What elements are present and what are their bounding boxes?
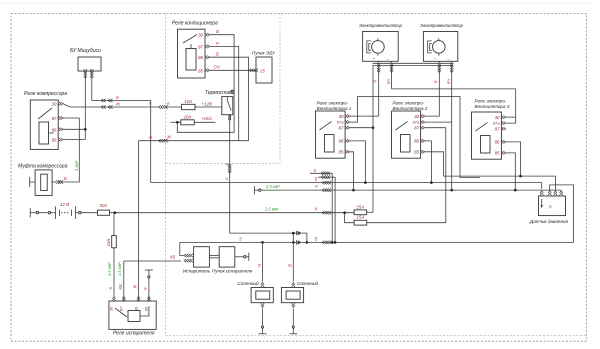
ECU box U1 — [70, 48, 101, 71]
wire evaporator relay pin86 (Ж net) — [133, 135, 249, 301]
ECU harness connector X1 pin25 — [252, 51, 276, 84]
svg-text:30: 30 — [52, 102, 57, 107]
node joins on evaporator bus — [292, 232, 308, 244]
wire fan M3 plus to relay K5 pin30 — [425, 66, 440, 117]
svg-text:Ч: Ч — [225, 162, 228, 167]
svg-text:БУ Мицубиси: БУ Мицубиси — [70, 48, 101, 54]
svg-text:85: 85 — [414, 150, 419, 155]
svg-text:15А: 15А — [356, 204, 364, 209]
svg-text:86: 86 — [495, 140, 500, 145]
svg-text:Р: Р — [216, 41, 219, 46]
compressor clutch M1 — [18, 164, 68, 196]
svg-text:30: 30 — [198, 33, 203, 38]
svg-text:Кч: Кч — [446, 78, 451, 84]
svg-text:87: 87 — [414, 126, 419, 131]
wire K5 pin85 to pressure switch — [425, 152, 556, 191]
svg-text:+15/1: +15/1 — [201, 116, 213, 121]
evaporator unit A1 — [183, 247, 211, 274]
fuse F1 10A +12V — [182, 99, 222, 110]
thermostat S1 — [205, 90, 234, 120]
svg-text:86: 86 — [414, 139, 419, 144]
wire thermostat output (Ч net) — [225, 120, 296, 233]
diode VD1 — [297, 231, 307, 243]
wire K4 pin87a loop — [350, 97, 481, 178]
svg-text:+12В: +12В — [202, 101, 212, 106]
wire C (К battery net) labels — [264, 206, 354, 214]
svg-text:З: З — [239, 237, 242, 242]
svg-text:Реле электро-: Реле электро- — [317, 101, 349, 106]
wire fan M2 plus to relay K4 pin30 — [349, 66, 379, 117]
wire ECU left lead — [63, 69, 87, 140]
solenoid Y2 — [281, 242, 318, 333]
svg-text:Ч: Ч — [225, 177, 228, 182]
section divider dashed vertical — [165, 14, 167, 336]
svg-text:Муфта компрессора: Муфта компрессора — [18, 164, 68, 170]
wire K3 pin85 to ECU harness — [210, 65, 259, 73]
svg-text:30: 30 — [414, 114, 419, 119]
AC-relay dashed box right edge — [279, 14, 281, 164]
wire fan M2 minus to relay K6 pin30 — [392, 66, 516, 124]
wire K3 pin87 to Ж net — [210, 41, 239, 141]
solenoid Y1 — [237, 242, 273, 333]
svg-text:Термостат: Термостат — [205, 90, 233, 96]
wire evaporator relay pin85 ground — [143, 270, 153, 301]
compressor relay K1 — [24, 91, 67, 149]
svg-text:86: 86 — [52, 127, 57, 132]
svg-text:12 В: 12 В — [60, 202, 69, 207]
svg-text:1 мм²: 1 мм² — [74, 160, 79, 171]
svg-text:Электровентилятор: Электровентилятор — [359, 23, 403, 28]
svg-text:1.5 мм²: 1.5 мм² — [107, 262, 112, 276]
svg-text:Вентилятора 2: Вентилятора 2 — [393, 106, 428, 111]
AC-relay dashed box bottom edge — [166, 163, 281, 165]
svg-text:Соленоид: Соленоид — [237, 281, 259, 286]
svg-text:В: В — [216, 52, 219, 57]
svg-text:Испаритель: Испаритель — [183, 269, 211, 274]
svg-text:87: 87 — [339, 126, 344, 131]
svg-text:Вентилятора 3: Вентилятора 3 — [475, 104, 510, 109]
fuse F2 50A — [97, 203, 322, 215]
svg-text:85: 85 — [339, 150, 344, 155]
svg-text:10А: 10А — [184, 99, 192, 104]
fuse F4 10A +15/1 — [171, 114, 216, 124]
svg-text:15А: 15А — [356, 215, 364, 220]
svg-text:85: 85 — [52, 138, 57, 143]
fuse F6 15A — [345, 213, 446, 225]
faint top border — [2, 2, 598, 4]
svg-text:Вентилятора 1: Вентилятора 1 — [317, 106, 352, 111]
svg-text:В: В — [288, 264, 293, 267]
pressure sensor B1 — [529, 191, 569, 224]
svg-text:КБ: КБ — [118, 284, 123, 290]
wire D evaporator bus — [180, 236, 574, 255]
svg-text:86: 86 — [339, 139, 344, 144]
wire pressure sensor pin2 from bus D — [550, 185, 574, 243]
svg-text:87: 87 — [52, 116, 57, 121]
svg-text:Б: Б — [64, 176, 67, 181]
svg-text:Реле кондиционера: Реле кондиционера — [172, 21, 218, 27]
wire relay K1 pin87 to clutch — [56, 118, 79, 184]
stub harness wires to bus risers — [310, 168, 335, 243]
svg-text:Кч: Кч — [386, 78, 391, 84]
fan relay K4 — [316, 101, 352, 159]
fuse F5 15A — [354, 204, 373, 214]
svg-text:86: 86 — [198, 55, 203, 60]
wire A (Б net) — [151, 177, 542, 189]
battery GB1 12V — [30, 202, 97, 219]
evaporator relay K2 — [108, 301, 156, 337]
wire K5 pin87 riser from fuse F6 — [425, 128, 446, 223]
svg-text:Реле электро-: Реле электро- — [475, 99, 507, 104]
wire K3 pin30 to fuse F4 — [177, 29, 234, 132]
svg-text:15А: 15А — [106, 239, 111, 247]
fan relay K6 — [472, 99, 510, 160]
svg-text:87а: 87а — [413, 120, 420, 125]
fan harness double bus — [373, 61, 454, 84]
evaporator harness X2 — [209, 247, 252, 274]
svg-text:10А: 10А — [184, 114, 192, 119]
svg-text:87а: 87а — [337, 120, 344, 125]
svg-text:Датчик давления: Датчик давления — [529, 219, 569, 224]
svg-text:Пучок испарителя: Пучок испарителя — [212, 269, 253, 274]
wire relay K1 pin30 bus to fuse +12V — [63, 101, 182, 109]
wire ECU right lead to node Б — [90, 69, 151, 183]
svg-text:Реле электро-: Реле электро- — [393, 101, 425, 106]
svg-text:Б: Б — [116, 95, 119, 100]
svg-text:2.5 мм²: 2.5 мм² — [265, 184, 280, 189]
svg-text:50А: 50А — [100, 203, 108, 208]
wire K6 pin85 to Ч bus — [506, 153, 516, 190]
svg-text:Реле испарителя: Реле испарителя — [113, 331, 155, 337]
svg-text:Ч: Ч — [315, 184, 318, 189]
wire K4 pin87 to fuse F5 — [350, 66, 375, 213]
svg-text:30: 30 — [495, 115, 500, 120]
fan relay K5 — [392, 101, 428, 159]
svg-text:30: 30 — [339, 114, 344, 119]
AC relay K3 — [172, 21, 218, 79]
svg-text:КБ: КБ — [170, 254, 176, 259]
svg-text:87: 87 — [495, 127, 500, 132]
wire evaporator relay pin87 — [117, 254, 181, 301]
svg-text:В: В — [216, 29, 219, 34]
svg-text:Ч: Ч — [143, 288, 148, 291]
svg-text:Соленоид: Соленоид — [297, 281, 319, 286]
bottom section dashed edge — [166, 335, 587, 337]
wire fan M3 minus to relay K5 pin87a and ground bus — [425, 66, 452, 191]
wire relay K1 pin85 from ECU riser — [63, 139, 85, 141]
svg-text:25: 25 — [259, 69, 265, 74]
diode VD2 — [297, 240, 302, 244]
fuse F3 15A vertical — [106, 213, 116, 301]
wire K5 pin86 to Б bus — [425, 141, 432, 183]
svg-text:ОЧ: ОЧ — [214, 65, 220, 70]
svg-text:1.5 мм²: 1.5 мм² — [117, 262, 122, 276]
svg-text:87а: 87а — [493, 121, 500, 126]
svg-text:85: 85 — [198, 68, 203, 73]
wire K6 pin86 — [506, 142, 521, 176]
svg-text:87: 87 — [198, 44, 203, 49]
svg-text:Электровентилятор: Электровентилятор — [420, 23, 464, 28]
wire K4 pin86 to Б bus — [350, 141, 366, 183]
svg-text:В: В — [315, 236, 318, 241]
svg-text:Ч: Ч — [257, 264, 262, 267]
electric fan M2 — [359, 23, 403, 61]
svg-text:Р: Р — [549, 205, 552, 210]
wire K3 pin86 — [210, 52, 249, 141]
svg-text:Б: Б — [315, 177, 318, 182]
svg-text:Пучок ЭБУ: Пучок ЭБУ — [252, 51, 276, 56]
svg-text:Реле компрессора: Реле компрессора — [24, 91, 67, 97]
electric fan M3 — [420, 23, 464, 61]
svg-text:2.5 мм²: 2.5 мм² — [264, 206, 279, 211]
wire K4 pin85 to Ч bus — [350, 152, 354, 190]
wire B (Ч ground net) — [254, 184, 561, 194]
svg-text:85: 85 — [495, 151, 500, 156]
